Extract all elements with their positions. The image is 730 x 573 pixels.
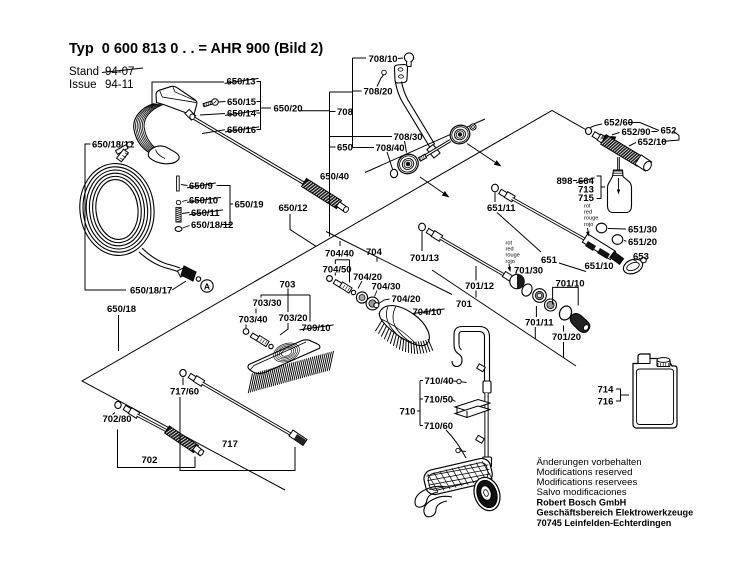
svg-text:708: 708 [337, 107, 353, 118]
svg-text:710: 710 [400, 406, 416, 417]
svg-text:rouge: rouge [584, 216, 598, 222]
leader 652/10 [629, 143, 636, 147]
nut 701/11 a [533, 289, 547, 303]
tick 708 [330, 111, 336, 113]
axle tip threaded [419, 154, 427, 161]
svg-text:650/20: 650/20 [274, 103, 303, 114]
trolley legs [415, 486, 446, 507]
circled A [201, 280, 213, 292]
leader 650/12 [290, 214, 316, 246]
brush 704 collar [379, 308, 391, 319]
svg-text:650/18/12: 650/18/12 [191, 220, 233, 231]
svg-text:708/10: 708/10 [369, 54, 398, 65]
spray gun trigger hatching [135, 104, 155, 154]
bottle 713/715 [608, 170, 632, 213]
o-ring 651/30 [596, 223, 607, 233]
bracket 710 [419, 381, 421, 426]
bracket 704/50 [335, 259, 349, 261]
lance 701 tube [440, 238, 505, 276]
ring at A [196, 277, 200, 281]
leader [453, 380, 457, 382]
leader [624, 240, 627, 243]
o-ring 704/50 [327, 276, 333, 282]
ring 703 [269, 344, 273, 348]
sprayer 652 body [601, 135, 643, 166]
svg-text:710/50: 710/50 [424, 394, 453, 405]
svg-text:717/60: 717/60 [170, 386, 199, 397]
leader 701/12 [475, 266, 477, 281]
svg-text:A: A [204, 281, 210, 291]
trolley peg top [477, 364, 486, 372]
leader [182, 200, 188, 202]
svg-text:702/80: 702/80 [103, 414, 132, 425]
svg-text:650: 650 [337, 142, 353, 153]
spray gun body 650 [156, 86, 197, 116]
trolley spreader 710/50 [455, 400, 490, 412]
leader [280, 323, 288, 335]
leader [377, 75, 384, 87]
leader 701/11 up [535, 306, 537, 317]
lance 702 tip [193, 445, 204, 456]
bracket 650/19 [217, 186, 231, 225]
svg-text:651/20: 651/20 [628, 237, 657, 248]
ring 704 [351, 290, 355, 294]
hose coupling [116, 145, 129, 155]
svg-text:709/10: 709/10 [302, 323, 331, 334]
ball 650/10 [176, 200, 180, 204]
svg-text:651: 651 [541, 255, 558, 266]
leader 704/30 [375, 291, 378, 297]
spray gun handle [134, 104, 155, 155]
coupler at nozzle [502, 272, 512, 282]
brush 703 socket swirl [280, 347, 293, 357]
sprayer 652 tip ribs [601, 135, 604, 139]
bracket 702 [118, 430, 196, 468]
leader [182, 378, 184, 386]
tick 650 [330, 146, 336, 148]
leader 704/40 [339, 241, 341, 246]
leader [245, 325, 247, 329]
nozzle ball 701/30 [510, 274, 524, 288]
o-ring small 650/18/12 [175, 227, 182, 232]
svg-text:704: 704 [366, 247, 383, 258]
trolley rod [484, 393, 488, 457]
cone nozzle 701/20 [570, 314, 590, 333]
svg-text:Issue: Issue [69, 79, 97, 91]
sprayer 652 cap [635, 155, 652, 171]
svg-text:703/40: 703/40 [239, 314, 268, 325]
svg-text:Geschäftsbereich Elektrowerkze: Geschäftsbereich Elektrowerkzeuge [537, 508, 694, 518]
arrow rojo to nozzle [508, 264, 511, 269]
leader 704/20 upper [358, 281, 362, 289]
bracket line B701 [432, 270, 576, 366]
trolley hook [452, 344, 462, 367]
bracket 703 [261, 289, 288, 296]
svg-text:650/11: 650/11 [191, 208, 220, 219]
bracket 651 group slanted [497, 213, 541, 253]
svg-text:714: 714 [598, 384, 615, 395]
leader [452, 400, 456, 402]
arrow 652/90 [612, 133, 620, 135]
svg-text:650/14: 650/14 [227, 108, 257, 119]
svg-text:Salvo modificaciones: Salvo modificaciones [537, 487, 627, 498]
svg-text:650/18/17: 650/18/17 [130, 285, 172, 296]
svg-text:red: red [584, 210, 592, 216]
spring 650/11 [176, 208, 181, 210]
lance 651 tube [512, 199, 587, 241]
lance 701 coupler [426, 228, 435, 236]
svg-text:650/13: 650/13 [227, 76, 256, 87]
brush 703 bristles [248, 374, 252, 394]
arrow rot to nozzle [587, 228, 590, 233]
line 650/20 to bracket [299, 110, 330, 112]
trolley screw top [457, 379, 461, 383]
svg-text:716: 716 [598, 396, 614, 407]
lance 702 coupler [123, 405, 132, 413]
svg-text:708/20: 708/20 [364, 86, 393, 97]
dash 898 [573, 180, 577, 182]
leader 708/40 down [387, 152, 393, 169]
nut above wheel [470, 124, 476, 130]
fitting 703/20 [250, 333, 260, 341]
svg-text:715: 715 [578, 193, 595, 204]
leader [113, 413, 116, 415]
dash 652/90-652 [652, 131, 658, 133]
hose coil 650/18 [75, 160, 158, 259]
handle tube 708 [396, 83, 431, 148]
sprayer 652 tip [592, 132, 601, 141]
leader 704/10 [396, 313, 411, 316]
bracket 717 [180, 397, 295, 471]
handle elbow [427, 145, 440, 159]
bracket vertical 708-650 [329, 92, 331, 237]
bracket 708/10-708/20 [352, 58, 354, 148]
leader [421, 232, 423, 252]
trolley screw bottom [456, 448, 460, 452]
o-ring 708/40 [390, 169, 397, 177]
spray gun foot [148, 146, 179, 164]
leader 701/20 up [563, 326, 565, 332]
svg-text:rojo: rojo [506, 259, 515, 265]
svg-text:702: 702 [142, 455, 158, 466]
leader 652/60 [590, 124, 602, 128]
leader [183, 226, 190, 229]
svg-text:rot: rot [584, 204, 591, 210]
svg-text:650/10: 650/10 [189, 195, 218, 206]
svg-text:rojo: rojo [584, 222, 593, 228]
trolley coupling [483, 381, 491, 393]
lance 717 tube [202, 383, 292, 435]
pin 650/9 [177, 176, 180, 191]
bracket 652 [628, 123, 659, 131]
o-ring oval 701 [520, 282, 534, 297]
leader [633, 260, 637, 262]
leader 708/30 long [330, 136, 393, 138]
knob 708/10 [404, 53, 413, 62]
lance 717 coupler [188, 373, 197, 381]
bracket 650/13-16 right part [257, 82, 261, 130]
gun outlet boss [185, 109, 196, 120]
o-ring 652/60 [586, 128, 592, 135]
o-ring 703/40 [243, 329, 249, 335]
svg-text:650/12: 650/12 [279, 203, 308, 214]
svg-text:Robert Bosch GmbH: Robert Bosch GmbH [537, 498, 627, 508]
lance grip 650/40 [302, 179, 342, 209]
leader 701/20 down [563, 342, 565, 358]
svg-text:red: red [506, 247, 514, 253]
leader 650/18/17 [172, 281, 186, 290]
svg-text:701/11: 701/11 [525, 317, 554, 328]
svg-text:94-11: 94-11 [105, 79, 134, 91]
brush 704 bristles [375, 321, 382, 332]
leader 701 [475, 291, 477, 298]
svg-text:70745 Leinfelden-Echterdingen: 70745 Leinfelden-Echterdingen [537, 518, 672, 528]
leader 704 [376, 257, 378, 262]
screw 650/15 icon [212, 99, 219, 106]
trolley handle tube [459, 332, 485, 394]
svg-text:650/40: 650/40 [320, 171, 349, 182]
lance tube 650 [195, 119, 307, 185]
svg-text:717: 717 [222, 439, 238, 450]
wheel left 708 [394, 151, 421, 178]
svg-text:650/15: 650/15 [227, 97, 257, 108]
o-ring 651/11 [492, 184, 499, 192]
svg-text:898: 898 [557, 176, 573, 187]
basket 710/60 [422, 457, 494, 497]
svg-text:704/20: 704/20 [392, 294, 421, 305]
bracket 701/10 [553, 287, 579, 305]
svg-text:651/11: 651/11 [487, 203, 516, 214]
bracket 714/716 [616, 389, 621, 401]
leader 710/60 [446, 430, 466, 458]
svg-text:701/30: 701/30 [514, 265, 543, 276]
leader [398, 57, 403, 60]
svg-text:701/20: 701/20 [552, 332, 581, 343]
nozzle 651/10 tip [610, 252, 624, 265]
bracket 713/715 [597, 176, 602, 199]
o-ring 704 small [374, 303, 379, 308]
svg-text:652: 652 [661, 125, 677, 136]
svg-text:701/13: 701/13 [410, 253, 439, 264]
svg-text:704/50: 704/50 [323, 264, 352, 275]
leader [608, 228, 626, 231]
svg-text:Stand: Stand [69, 66, 99, 78]
svg-text:650/19: 650/19 [235, 199, 264, 210]
wheel right 708 [447, 122, 473, 148]
brush 703 body [248, 340, 320, 374]
lance 717 tip [289, 430, 307, 445]
o-ring 717/60 [180, 369, 186, 376]
leader 704/20 lower [379, 299, 390, 304]
nut 701/11 b [545, 299, 557, 311]
trolley wheel [470, 474, 504, 514]
tool 653 [621, 256, 645, 276]
svg-text:rouge: rouge [506, 253, 520, 259]
svg-text:704/40: 704/40 [325, 248, 354, 259]
hose end fitting 650/18/17 [177, 267, 188, 277]
coil bracket line [85, 144, 126, 290]
leader [255, 309, 257, 314]
arrow at left wheel [420, 177, 445, 194]
bracket 650/13-16 left part [152, 82, 224, 108]
o-ring 651/20 [612, 235, 623, 245]
handle cap 708 [394, 65, 407, 84]
secondary plane line [365, 119, 485, 173]
suction tube 652 [617, 157, 620, 196]
canister cap [657, 360, 670, 367]
leader 650/14 [200, 114, 225, 116]
svg-text:651/30: 651/30 [628, 224, 657, 235]
svg-text:651/10: 651/10 [585, 261, 614, 272]
leader 650/15 [219, 101, 226, 104]
leader 650/16 [202, 130, 225, 134]
704 axis line [326, 232, 452, 295]
leader [182, 213, 190, 214]
svg-text:708/40: 708/40 [376, 143, 405, 154]
o-ring 650/18/12 [127, 142, 132, 147]
nut 704 a [356, 292, 367, 303]
axle 708 [424, 141, 451, 157]
svg-text:650/9: 650/9 [189, 181, 213, 192]
leader 708/30 down [405, 141, 407, 153]
svg-text:701: 701 [456, 299, 473, 310]
arrow at right wheel [467, 144, 497, 164]
lance 702 grip [165, 426, 199, 453]
svg-text:650/16: 650/16 [227, 125, 256, 136]
nut 704 b [366, 297, 379, 310]
brush 704 dome [379, 306, 429, 346]
lance 651 coupler [499, 189, 508, 197]
svg-text:703: 703 [280, 279, 296, 290]
svg-text:701/12: 701/12 [465, 281, 494, 292]
fitting 704 [333, 280, 343, 288]
trolley peg bottom [476, 435, 485, 443]
svg-text:650/18: 650/18 [107, 304, 136, 315]
svg-text:708/30: 708/30 [394, 132, 423, 143]
canister 714/716 [633, 354, 677, 428]
leader [181, 185, 188, 186]
leader [494, 193, 496, 203]
o-ring 701/13 [419, 223, 426, 231]
main assembly plane line [82, 111, 587, 491]
nozzle 651/10 [582, 234, 615, 260]
bottle tube with arrow [618, 178, 620, 190]
leader 650/18 [118, 315, 120, 351]
svg-text:704/30: 704/30 [372, 281, 401, 292]
leader 701/11 down [534, 327, 536, 339]
lance tip [336, 202, 348, 212]
svg-text:rot: rot [506, 241, 513, 247]
hose tail [139, 252, 179, 272]
svg-text:Typ 0 600 813 0 . . = AHR 900: Typ 0 600 813 0 . . = AHR 900 (Bild 2) [69, 41, 323, 57]
svg-text:710/40: 710/40 [425, 376, 454, 387]
svg-text:652/10: 652/10 [638, 137, 667, 148]
o-ring big 701/20 [557, 304, 574, 322]
svg-text:703/30: 703/30 [253, 298, 282, 309]
o-ring 702/80 [115, 401, 121, 408]
lance 702 tube [137, 415, 169, 432]
screw 708/20 [382, 70, 387, 75]
svg-text:710/60: 710/60 [424, 421, 453, 432]
trolley lower fitting [483, 457, 492, 467]
